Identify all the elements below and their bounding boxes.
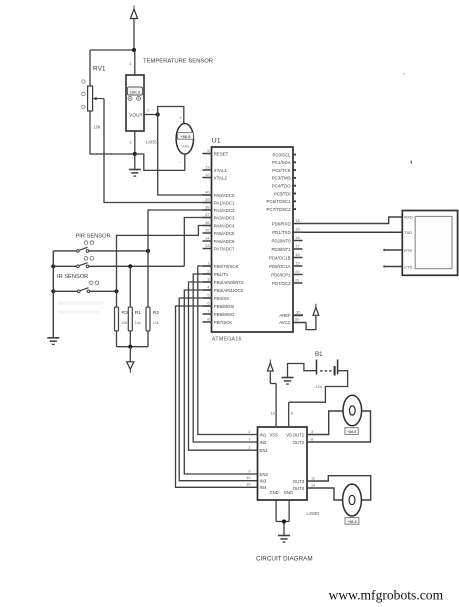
svg-text:PC3/TMS: PC3/TMS [272,176,291,181]
U1 pin 39 PA1/ADC1 [203,198,236,205]
U1 pin 27 PC5/TDI [274,191,296,196]
resistor R3 [115,307,129,331]
svg-text:3: 3 [129,141,131,145]
svg-text:PC0/SCL: PC0/SCL [272,152,291,157]
wire LM35 pin 3 to ground [134,131,136,154]
L293D pin 15 IN4 [246,483,267,490]
U1 pin 28 PC6/TOSC1 [267,199,296,204]
U1 pin 15 PD1/TXD [272,228,302,235]
svg-text:Volts: Volts [181,144,189,148]
svg-text:PD1/TXD: PD1/TXD [272,230,290,235]
ground (L293D) [278,536,290,543]
svg-text:PC4/TDO: PC4/TDO [272,183,291,188]
svg-text:+88.8: +88.8 [347,430,356,434]
wire VCC rail to RV1 [90,50,134,86]
svg-text:21: 21 [295,278,299,282]
svg-text:17: 17 [295,244,299,248]
svg-text:TXD: TXD [404,230,412,235]
U1 pin 3 PB2/AIN0/INT2 [203,277,245,284]
node junction VCC/LM35 pin1 [132,48,136,52]
svg-text:PA6/ADC6: PA6/ADC6 [214,239,235,244]
meter +88.8 (M1) [345,428,358,435]
U1 pin 6 PB5/MOSI [203,301,235,308]
svg-text:PIR SENSOR: PIR SENSOR [76,234,111,240]
L293D pin 1 EN1 [248,446,268,453]
U1 pin 22 PC0/SCL [272,152,296,157]
L293D pin 8 VS wire [289,402,293,427]
svg-text:3: 3 [207,277,209,281]
op IC U1 ATMEGA16 body [212,147,294,332]
motor M2 [343,484,362,516]
svg-text:R3: R3 [122,310,129,316]
svg-text:6: 6 [311,437,313,441]
wire PA3 net [184,218,211,267]
U1 pin 26 PC4/TDO [272,183,296,188]
svg-text:CTS: CTS [404,264,412,269]
svg-text:PD0/RXD: PD0/RXD [272,221,291,226]
wire LM35 pin 1 [134,50,136,75]
svg-text:OUT2: OUT2 [293,440,305,445]
svg-text:RTS: RTS [404,248,412,253]
wire PB3 to EN2 [184,290,257,474]
U1 pin 2 PB1/T1 [203,269,229,276]
svg-text:IN2: IN2 [260,440,267,445]
U1 pin 40 PA0/ADC0 [203,190,236,197]
node junction PIR/R2/PA2 [146,249,150,253]
svg-text:PA7/ADC7: PA7/ADC7 [214,246,235,251]
wire VOUT to U1 PA0 [158,115,212,196]
U1 pin 17 PD3/INT1 [272,244,303,251]
svg-text:7: 7 [248,437,250,441]
U1 pin 33 PA7/ADC7 [203,244,236,251]
switch SW3 (IR sensor) [78,281,99,293]
node junction VOUT [156,112,160,116]
stray mark [410,161,413,164]
watermark www.mfgrobots.com [329,588,444,603]
svg-text:EN2: EN2 [260,472,269,477]
U1 pin 38 PA2/ADC2 [203,205,236,212]
svg-text:2: 2 [248,430,250,434]
node junction resistor common [128,345,132,349]
wire RV1 wiper to U1 PA1 [104,99,212,203]
U1 pin 34 PA6/ADC6 [203,236,236,243]
stray dot [403,73,405,75]
label U1 [212,138,221,145]
U1 pin 13 XTAL1 [203,165,228,172]
wire SW3 row to bus [53,290,77,292]
svg-text:PB4/SS: PB4/SS [214,296,229,301]
wire R2 top [147,251,149,307]
wire PB2 to EN1 [189,282,258,450]
svg-text:PB5/MOSI: PB5/MOSI [214,304,235,309]
pin number 2 (LM35 VOUT) [147,109,149,113]
svg-text:PD7/OC2: PD7/OC2 [272,281,291,286]
svg-text:RESET: RESET [214,151,229,156]
svg-text:18: 18 [295,253,299,257]
svg-text:13: 13 [205,165,209,169]
svg-text:AREF: AREF [279,313,291,318]
svg-text:AVCC: AVCC [279,320,290,325]
power VCC arrow (VSS) [267,360,276,384]
svg-text:7: 7 [207,309,209,313]
wire OUT1 to motor M1 left [307,411,343,435]
faint ghost text [58,303,104,312]
svg-text:OUT4: OUT4 [293,486,305,491]
svg-text:PD2/INT0: PD2/INT0 [272,238,292,243]
svg-text:PA0/ADC0: PA0/ADC0 [214,193,235,198]
wire battery minus to ground [288,364,317,378]
svg-text:OUT1: OUT1 [293,432,305,437]
svg-text:IN1: IN1 [260,432,267,437]
svg-text:19: 19 [295,261,299,265]
U1 pin 36 PA4/ADC4 [203,221,236,228]
U1 pin 9 RESET [203,149,229,156]
svg-text:ATMEGA16: ATMEGA16 [212,337,242,343]
svg-text:EN1: EN1 [260,448,269,453]
svg-text:R2: R2 [153,310,160,316]
svg-text:14: 14 [311,483,315,487]
wire AVCC to VCC arrow [306,315,316,329]
wire battery plus to L293D VS [289,371,348,403]
svg-text:8: 8 [291,412,293,416]
svg-text:OUT3: OUT3 [293,479,305,484]
wire to down arrow [129,347,131,362]
wire PB4 to IN3 [179,298,257,481]
svg-text:10k: 10k [122,321,128,325]
label L293D [307,511,320,516]
svg-text:12: 12 [205,173,209,177]
svg-text:PB1/T1: PB1/T1 [214,272,229,277]
label LM35 [146,140,157,145]
svg-text:GND: GND [270,490,279,495]
U1 pin 30 AVCC [279,317,306,325]
svg-text:PD3/INT1: PD3/INT1 [272,247,292,252]
svg-text:33: 33 [205,244,209,248]
svg-text:40: 40 [205,190,209,194]
wire PA2 net [148,210,212,251]
svg-text:IR SENSOR: IR SENSOR [57,274,88,280]
wire connector RTS stub [383,249,402,251]
svg-text:+88.8: +88.8 [347,520,356,524]
svg-text:3: 3 [311,430,313,434]
svg-text:-: - [180,160,182,165]
wire PB5 to IN4 [176,306,258,487]
wire OUT2 to motor M1 right [307,411,371,442]
wire PB1 to IN2 [193,274,257,442]
svg-text:+: + [180,116,183,121]
resistor R1 [128,307,141,331]
svg-text:16: 16 [295,236,299,240]
svg-text:PB0/T0/XCK: PB0/T0/XCK [214,264,239,269]
svg-text:10k: 10k [153,321,159,325]
U1 pin 37 PA3/ADC3 [203,213,236,220]
label TEMPERATURE SENSOR [143,59,213,65]
ground (sensor bus) [47,338,59,345]
wire connector CTS stub [383,265,402,267]
svg-text:2: 2 [147,109,149,113]
label RV1 [93,66,106,73]
motor M1 [343,395,362,426]
svg-text:1: 1 [248,446,250,450]
node junction LM35 gnd / RV1 / voltmeter [133,152,137,156]
U1 pin 8 PB7/SCK [203,317,233,324]
resistor R2 [146,307,159,331]
svg-text:www.mfgrobots.com: www.mfgrobots.com [329,588,444,603]
wire SW3 row to R3 node [90,290,117,292]
L293D pin 2 IN1 [248,430,266,437]
meter +88.8 (M2) [345,518,359,525]
svg-text:PB2/AIN0/INT2: PB2/AIN0/INT2 [214,280,244,285]
L293D pin 9 EN2 [248,469,268,476]
wire OUT4 to motor M2 left [307,488,343,500]
U1 pin 20 PD6/ICP1 [271,270,302,277]
svg-text:PD6/ICP1: PD6/ICP1 [271,272,291,277]
svg-text:9: 9 [248,469,250,473]
svg-text:GND: GND [284,490,293,495]
L293D pin 16 VSS wire [271,384,277,428]
svg-text:VS: VS [286,433,292,438]
power VCC arrow (AVCC) [313,304,319,316]
label ATMEGA16 [212,337,242,343]
svg-text:B1: B1 [315,351,323,358]
wire R1 top [129,266,131,307]
svg-text:14: 14 [295,219,299,223]
wire U1 PD1/TXD to connector TXD [303,231,403,233]
U1 pin 35 PA5/ADC5 [203,228,236,235]
U1 pin 32 AREF [279,311,303,319]
wire PIR row to R2 node [89,250,148,252]
node junction GND [282,519,286,523]
wire VOUT to voltmeter plus [158,107,184,124]
svg-text:6: 6 [207,301,209,305]
svg-text:RV1: RV1 [93,66,106,73]
svg-text:R1: R1 [135,310,142,316]
motor driver U3 L293D body [258,427,308,500]
U1 pin 21 PD7/OC2 [272,278,302,285]
svg-text:PA3/ADC3: PA3/ADC3 [214,215,235,220]
U1 pin 1 PB0/T0/XCK [203,261,239,268]
svg-text:IN4: IN4 [260,485,267,490]
svg-text:8: 8 [207,317,209,321]
value 10k (RV1) [94,125,102,130]
label PIR SENSOR [76,234,111,240]
connector J1 serial terminal [402,211,457,276]
U1 pin 19 PD5/OC1A [269,261,302,268]
L293D GND pins wires [276,500,289,536]
voltmeter (DC volts) [176,116,193,165]
U1 pin 25 PC3/TMS [272,176,296,181]
svg-text:LM35: LM35 [146,140,157,145]
L293D pin 14 OUT4 [293,483,316,490]
svg-text:IN3: IN3 [260,478,267,483]
svg-text:PA2/ADC2: PA2/ADC2 [214,208,235,213]
node junction IR/R3/PA4 [114,289,118,293]
U1 pin 4 PB3/AIN1/OC0 [203,285,244,292]
U1 pin 23 PC1/SDA [272,160,296,165]
wire PB0 to IN1 [198,266,258,435]
power VCC arrow (top, temperature sensor supply) [130,6,137,51]
sensor bus wire [52,251,54,338]
wire PA4 net [117,226,212,308]
label IR SENSOR [57,274,88,280]
svg-text:PD5/OC1A: PD5/OC1A [269,264,291,269]
battery B1 [317,360,338,376]
wire RV1 bottom to ground node [90,111,135,154]
svg-text:30: 30 [295,317,299,321]
svg-text:L293D: L293D [307,511,320,516]
svg-text:PB3/AIN1/OC0: PB3/AIN1/OC0 [214,288,244,293]
svg-text:39: 39 [205,198,209,202]
switch SW1 (PIR sensor) [77,241,94,252]
svg-text:38: 38 [205,205,209,209]
svg-text:PC7/TOSC2: PC7/TOSC2 [267,207,292,212]
svg-text:32: 32 [296,311,300,315]
node junction R1 top [128,264,132,268]
U1 pin 24 PC2/TCK [272,168,296,173]
svg-text:16: 16 [271,412,275,416]
svg-text:PC5/TDI: PC5/TDI [274,191,291,196]
svg-text:1: 1 [207,261,209,265]
wire resistor bottoms common [117,331,149,347]
svg-text:15: 15 [246,483,250,487]
wire SW2 row to bus [53,265,76,267]
U1 pin 7 PB6/MISO [203,309,235,316]
ground (battery) [282,378,294,385]
power down arrow (sensor pulldown rail) [127,362,134,373]
svg-text:TEMPERATURE SENSOR: TEMPERATURE SENSOR [143,59,213,65]
svg-text:10K.0: 10K.0 [130,90,141,95]
caption CIRCUIT DIAGRAM [256,556,313,563]
svg-text:VOUT: VOUT [129,112,142,118]
U1 pin 29 PC7/TOSC2 [267,207,296,212]
svg-text:+88.8: +88.8 [180,134,191,139]
switch SW2 (middle sensor) [77,257,94,268]
svg-text:10k: 10k [94,125,102,130]
svg-text:PB7/SCK: PB7/SCK [214,320,232,325]
svg-text:U1: U1 [212,138,221,145]
U1 pin 12 XTAL2 [203,173,228,180]
L293D pin 11 OUT3 [293,476,315,483]
node junction bus/SW2 [51,264,55,268]
svg-text:VSS: VSS [270,433,279,438]
svg-text:34: 34 [205,236,209,240]
potentiometer RV1 [82,80,104,111]
svg-text:11: 11 [311,476,315,480]
svg-text:37: 37 [205,213,209,217]
wire OUT3 to motor M2 right [307,476,371,500]
svg-text:20: 20 [295,270,299,274]
svg-text:PB6/MISO: PB6/MISO [214,312,235,317]
U1 pin 16 PD2/INT0 [272,236,303,243]
svg-text:9: 9 [207,149,209,153]
node junction bus/SW3 [51,289,55,293]
ground (temperature sensor) [129,154,141,176]
svg-text:XTAL1: XTAL1 [214,168,228,173]
svg-text:PA4/ADC4: PA4/ADC4 [214,223,235,228]
svg-text:PD4/OC1B: PD4/OC1B [269,255,291,260]
wire PIR row to bus [53,250,76,252]
label B1 [315,351,323,358]
pin number 1 (LM35) [129,62,131,66]
wire voltmeter minus to ground node [135,154,185,170]
svg-text:5: 5 [207,293,209,297]
svg-text:15: 15 [295,228,299,232]
U1 pin 14 PD0/RXD [272,219,303,226]
wire SW2 row to PA3 [89,265,185,267]
U1 pin 18 PD4/OC1B [269,253,302,260]
svg-text:12V: 12V [316,384,323,389]
svg-text:CIRCUIT DIAGRAM: CIRCUIT DIAGRAM [256,556,313,563]
svg-text:4: 4 [207,285,209,289]
svg-text:PA1/ADC1: PA1/ADC1 [214,200,235,205]
svg-text:PC1/SDA: PC1/SDA [272,160,291,165]
U1 pin 5 PB4/SS [203,293,230,300]
L293D pin 3 OUT1 [293,430,314,437]
temperature sensor U2 LM35 [126,75,144,131]
svg-text:10k: 10k [135,321,141,325]
L293D pin 7 IN2 [248,437,266,444]
wire U1 PD0/RXD to connector RXD [303,217,403,224]
svg-text:PC2/TCK: PC2/TCK [272,168,290,173]
svg-text:PA5/ADC5: PA5/ADC5 [214,231,235,236]
svg-text:10: 10 [246,476,250,480]
wire LM35 VOUT pin 2 [144,114,158,116]
value 12V (B1) [316,384,323,389]
pin number 3 (LM35 GND) [129,141,131,145]
L293D pin 6 OUT2 [293,437,314,444]
svg-text:PC6/TOSC1: PC6/TOSC1 [267,199,292,204]
svg-text:36: 36 [205,221,209,225]
L293D pin 10 IN3 [246,476,267,483]
svg-text:XTAL2: XTAL2 [214,175,228,180]
svg-text:2: 2 [207,269,209,273]
svg-text:1: 1 [129,62,131,66]
L293D labels VSS VS GND GND [270,433,294,495]
svg-text:RXD: RXD [404,215,412,220]
svg-text:35: 35 [205,228,209,232]
